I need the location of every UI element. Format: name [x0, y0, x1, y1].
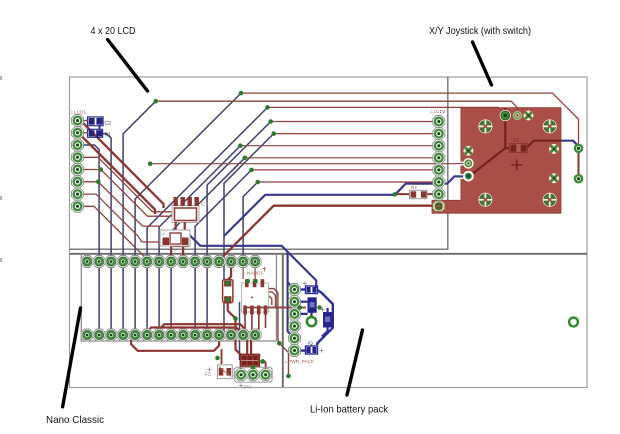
- joystick pad X left: [463, 146, 473, 156]
- annotation text LCD: [91, 25, 136, 37]
- joystick pad solid: [500, 110, 511, 121]
- jumper JP1 outline: [234, 367, 272, 389]
- svg-text:Li-Ion battery pack: Li-Ion battery pack: [310, 404, 389, 416]
- wire red top to joystick ring pad: [156, 101, 518, 112]
- resistor R1: [82, 126, 111, 139]
- wire red LCD1 pad4: [82, 157, 172, 212]
- regulator IC1: [240, 354, 260, 367]
- wire red mid to joystick small ring pad: [150, 163, 465, 165]
- joystick pad X top: [524, 111, 534, 121]
- wire blue LCD1 pad3 to nano: [82, 145, 99, 333]
- svg-text:⊥LCD2: ⊥LCD2: [430, 109, 446, 114]
- wire red nano bottom bus1: [131, 336, 219, 351]
- wire blue via6 diagonal to nano: [195, 170, 251, 333]
- header LCD2: [430, 109, 446, 200]
- wire blue bus IC3 to battery: [188, 234, 316, 289]
- svg-text:Nano Classic: Nano Classic: [46, 414, 104, 426]
- edge marks: [0, 76, 2, 262]
- vias: [96, 91, 397, 379]
- op-amp IC3: [171, 197, 208, 262]
- battery module left edge: [282, 254, 284, 388]
- wire red nano double bus lower: [147, 328, 247, 355]
- annotation text battery: [310, 404, 389, 416]
- wire red via through R4 to LCD2 pad7: [395, 193, 433, 195]
- fuse F3: [205, 365, 232, 379]
- annotation line LCD: [108, 40, 148, 92]
- joystick pad ring: [513, 111, 522, 120]
- capacitor C3 battery: [303, 282, 318, 294]
- svg-text:R1: R1: [105, 133, 112, 139]
- header nano top row: [81, 256, 261, 268]
- annotation line nano: [63, 308, 81, 407]
- wire dark red joystick through C1: [505, 141, 561, 148]
- wire blue via1 diagonal to nano: [123, 101, 156, 333]
- svg-text:⊥PWR_PACK: ⊥PWR_PACK: [284, 359, 315, 364]
- diode D1 nano: [223, 280, 233, 303]
- wire blue nano to R4 via: [224, 195, 395, 236]
- wire red jumper links: [222, 349, 266, 371]
- header nano bottom row: [81, 329, 261, 341]
- wire red via to LCD2 pad2: [274, 133, 433, 135]
- joystick copper pour: [432, 108, 561, 214]
- wire blue nano IC pin down: [239, 302, 241, 360]
- LCD module outline: [70, 77, 448, 249]
- joystick mount pad SE: [543, 193, 557, 207]
- wire blue via3 long diagonal to nano: [147, 107, 267, 333]
- capacitor C1 joystick: [510, 138, 528, 153]
- svg-text:4 x 20 LCD: 4 x 20 LCD: [91, 25, 136, 37]
- svg-text:C1: C1: [514, 138, 520, 143]
- wire blue via4 diagonal to nano: [159, 146, 240, 333]
- svg-text:R4: R4: [411, 185, 417, 190]
- board outline: [70, 77, 588, 388]
- wire red thick R1 diagonal: [80, 135, 155, 215]
- hole battery: [307, 317, 316, 326]
- wire blue via8 diagonal to nano: [207, 122, 271, 334]
- wire blue joystick right: [561, 141, 579, 148]
- header LCD1: [70, 110, 86, 213]
- annotation line joystick: [473, 42, 492, 85]
- wire red nano IC bus right: [250, 289, 306, 308]
- wire red top to joystick right pad: [241, 93, 579, 145]
- wire red via to LCD2 pad6: [258, 181, 433, 183]
- joystick center cross: [511, 159, 522, 170]
- joystick mount pad SW: [478, 193, 492, 207]
- wire blue via7 diagonal to nano: [243, 182, 258, 259]
- svg-text:IC3: IC3: [201, 202, 209, 208]
- capacitor C2: [82, 117, 111, 127]
- wire red thick nano to joystick pad8: [223, 206, 434, 259]
- wire blue R1 to nano: [101, 134, 112, 333]
- wire red nano top stubs: [195, 263, 255, 279]
- wire blue via to joystick pad: [395, 176, 466, 194]
- wire red LCD1 pad8: [82, 206, 149, 260]
- pad LCD2 pin8 on pour: [433, 201, 445, 211]
- wire red via to LCD2 pad1: [271, 121, 433, 123]
- wire blue via5 diagonal to nano: [171, 158, 245, 333]
- header JP1 pins: [235, 369, 272, 381]
- svg-text:X/Y Joystick (with switch): X/Y Joystick (with switch): [429, 25, 531, 37]
- resistor R4: [410, 185, 428, 199]
- wire red nano double bus upper: [159, 324, 251, 354]
- annotation line battery: [347, 330, 363, 395]
- svg-text:C2: C2: [105, 121, 112, 127]
- transistor NANO1 IC: [242, 268, 269, 334]
- wire blue PWR pad1-pad2: [293, 290, 295, 302]
- diode D3 battery: [321, 308, 332, 328]
- wire dark red joystick vertical: [470, 108, 506, 176]
- wire red via to LCD2 pad5: [252, 169, 434, 171]
- wire red LCD1 pad7: [82, 194, 161, 242]
- joystick right pad2: [574, 174, 583, 183]
- joystick pad ring left: [463, 158, 474, 169]
- wire red via to LCD2 pad4: [245, 157, 433, 159]
- joystick right pad1: [574, 144, 583, 153]
- wire red LCD1 pad5: [82, 170, 172, 217]
- joystick mount pad NW: [478, 119, 492, 133]
- annotation text nano: [46, 414, 104, 426]
- wire red LCD1 pad6: [82, 182, 161, 226]
- svg-text:⊥LCD1: ⊥LCD1: [70, 110, 86, 115]
- capacitor C4: [159, 230, 190, 246]
- wire red nano to battery lower: [278, 303, 289, 376]
- header PWR_PACK: [284, 284, 315, 365]
- joystick pad X right1: [549, 144, 559, 154]
- wire red nano top pad to diode: [228, 263, 231, 280]
- annotation text joystick: [429, 25, 531, 37]
- wire red battery feed: [245, 307, 306, 309]
- svg-text:JPX: JPX: [243, 385, 251, 390]
- capacitor C5 battery: [306, 341, 324, 355]
- joystick pad donut left: [463, 171, 474, 182]
- svg-text:IQ: IQ: [308, 341, 313, 346]
- wire red thick C2 diagonal: [83, 123, 164, 209]
- svg-text:NANO1: NANO1: [247, 271, 264, 276]
- wire red joystick right pads link: [578, 150, 580, 177]
- hole right: [569, 318, 578, 327]
- wire blue via2 long diagonal to nano: [135, 93, 241, 333]
- nano module outline: [81, 254, 276, 341]
- joystick mount pad NE: [543, 119, 557, 133]
- wire blue battery vertical: [288, 253, 295, 339]
- wire red via to LCD2 pad3: [240, 145, 433, 147]
- svg-text:F3: F3: [205, 372, 211, 378]
- wire red diode to regulator: [228, 303, 241, 355]
- battery pack bottom-layer loop: [295, 290, 333, 351]
- lower module outline: [70, 253, 588, 255]
- wire red top to joystick center pad: [268, 107, 506, 114]
- diode D2 battery: [308, 298, 316, 313]
- wire blue via9 diagonal to nano: [224, 134, 274, 333]
- svg-text:C4: C4: [159, 232, 165, 237]
- joystick pad X right2: [549, 173, 559, 183]
